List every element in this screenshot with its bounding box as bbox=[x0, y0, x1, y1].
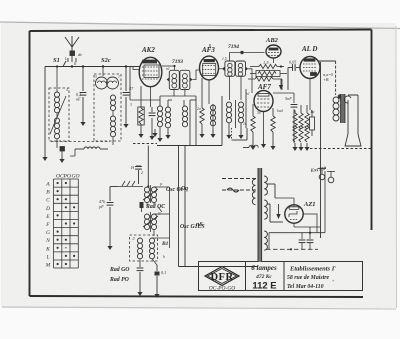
svg-text:F: F bbox=[45, 222, 50, 228]
svg-text:AB2: AB2 bbox=[265, 37, 279, 44]
svg-text:C: C bbox=[46, 198, 50, 204]
svg-text:GO: GO bbox=[72, 174, 80, 180]
svg-text:G: G bbox=[46, 230, 50, 236]
svg-text:AZ1: AZ1 bbox=[303, 201, 316, 208]
svg-text:AL D: AL D bbox=[301, 45, 318, 53]
svg-text:B: B bbox=[46, 190, 50, 196]
svg-text:112 E: 112 E bbox=[252, 281, 276, 292]
svg-text:D: D bbox=[45, 206, 50, 212]
svg-text:3: 3 bbox=[130, 103, 132, 107]
svg-text:K: K bbox=[45, 246, 50, 252]
svg-text:M: M bbox=[45, 263, 51, 269]
svg-text:S1: S1 bbox=[53, 57, 60, 64]
svg-text:5: 5 bbox=[95, 75, 97, 79]
svg-text:6 lampes: 6 lampes bbox=[251, 264, 277, 272]
svg-text:n1: n1 bbox=[166, 67, 170, 71]
svg-text:1a: 1a bbox=[310, 109, 315, 114]
svg-text:AF3: AF3 bbox=[201, 46, 215, 54]
svg-text:K: K bbox=[73, 62, 77, 66]
svg-text:2: 2 bbox=[141, 170, 143, 175]
svg-text:DFR: DFR bbox=[210, 272, 233, 283]
svg-text:b: b bbox=[163, 255, 165, 259]
svg-text:n1: n1 bbox=[246, 92, 250, 96]
svg-text:1: 1 bbox=[118, 75, 120, 79]
svg-text:7193: 7193 bbox=[172, 59, 183, 65]
svg-text:4: 4 bbox=[66, 88, 68, 92]
svg-text:L: L bbox=[64, 57, 67, 61]
svg-text:472 Kc: 472 Kc bbox=[255, 274, 272, 280]
svg-text:58 rue de Maistre: 58 rue de Maistre bbox=[287, 275, 329, 281]
svg-text:OC-PO-GO: OC-PO-GO bbox=[209, 286, 236, 292]
svg-text:pF: pF bbox=[98, 204, 104, 209]
svg-text:L: L bbox=[45, 254, 49, 260]
svg-text:B1: B1 bbox=[161, 241, 169, 247]
svg-text:N: N bbox=[157, 212, 161, 216]
svg-text:7194: 7194 bbox=[228, 44, 239, 50]
svg-text:nF: nF bbox=[76, 97, 81, 102]
svg-text:nS: nS bbox=[196, 222, 203, 228]
svg-text:E: E bbox=[45, 214, 50, 220]
svg-text:de: de bbox=[78, 52, 82, 57]
svg-text:PO: PO bbox=[63, 174, 71, 180]
svg-text:Etablissements Γ: Etablissements Γ bbox=[289, 266, 336, 273]
svg-text:AF7: AF7 bbox=[257, 83, 271, 91]
svg-text:5nF: 5nF bbox=[285, 96, 292, 101]
svg-text:S2c: S2c bbox=[101, 57, 111, 64]
svg-text:+B: +B bbox=[323, 77, 329, 82]
svg-text:50: 50 bbox=[257, 111, 261, 115]
svg-text:N: N bbox=[45, 238, 50, 244]
svg-text:Л: Л bbox=[131, 237, 135, 241]
svg-text:A: A bbox=[45, 182, 50, 188]
svg-text:Rad OC: Rad OC bbox=[145, 204, 165, 210]
svg-text:2a: 2a bbox=[197, 107, 201, 111]
svg-text:Rad GO: Rad GO bbox=[109, 267, 130, 273]
svg-text:Tel Mar 04-110: Tel Mar 04-110 bbox=[287, 284, 324, 290]
svg-text:bad: bad bbox=[277, 109, 283, 113]
svg-text:AK2: AK2 bbox=[141, 46, 155, 54]
svg-text:Rad PO: Rad PO bbox=[109, 277, 130, 283]
